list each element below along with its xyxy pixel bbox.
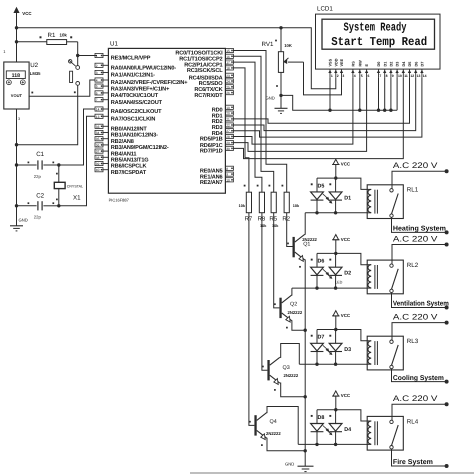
svg-text:D5: D5 [408,62,412,67]
svg-text:D7: D7 [318,335,325,341]
svg-text:3: 3 [96,71,98,75]
svg-text:2: 2 [96,64,98,68]
node: VCC junction (block 3) [334,328,337,331]
svg-text:36: 36 [96,143,100,147]
resistor R5 (base resistor) [269,185,278,223]
wire: LCD D5 to U1 RD2 [233,77,409,123]
node: VCC junction (block 2) [334,252,337,255]
svg-text:Q4: Q4 [270,419,277,425]
LCD pin 14 D7 [420,62,426,78]
node: button-gnd junction [15,143,18,146]
wire: load output to terminal (block 2) [392,293,449,308]
microcontroller U1 PIC16F887 [108,41,225,203]
wire: LCD VSS to ground rail [329,77,331,110]
wire: U2 pin3 down (left ground line) [16,109,18,226]
wire: button to ground line [17,85,78,144]
svg-text:19: 19 [226,106,230,110]
U1 pin 3 (RA1) [95,70,155,78]
svg-text:14: 14 [423,74,427,78]
svg-text:LCD1: LCD1 [317,6,333,13]
wire: U1 RC0 to R2 [233,51,286,193]
wire: A.C 220 V feed (block 3) [392,312,447,340]
svg-text:118: 118 [12,73,20,79]
wire: VCC rail (block 3) [317,330,367,341]
U1 pin 18 (RC3) [187,66,234,74]
terminal: load (block 1) [445,230,449,234]
node: D1 bottom [334,211,337,214]
node: Q2 emitter junction [304,329,307,332]
wire: Q2 emitter join [292,321,306,331]
svg-text:D3: D3 [396,62,400,67]
U1 pin 37 (RB4) [95,149,136,157]
wire: VCC rail (block 4) [317,410,367,421]
terminal: AC (block 2) [445,243,449,247]
svg-text:D2: D2 [390,62,394,67]
svg-text:D8: D8 [318,415,325,421]
svg-text:R1: R1 [48,32,56,39]
capacitor C2 22p [17,193,59,220]
U1 pin 13 (RA7) [95,114,155,122]
svg-text:VCC: VCC [341,162,351,167]
svg-text:VEE: VEE [340,58,344,66]
LCD pin 2 VDD [334,58,339,78]
bottom image border artifact [190,472,474,474]
svg-text:5: 5 [361,74,363,78]
svg-text:A.C 220 V: A.C 220 V [393,161,438,170]
svg-text:D1: D1 [344,195,351,201]
svg-text:22: 22 [226,124,230,128]
svg-text:9: 9 [392,74,394,78]
svg-text:CRYSTAL: CRYSTAL [67,184,83,188]
transistor Q4 (2N2222 NPN) [249,413,281,446]
svg-text:23: 23 [226,74,230,78]
svg-text:GND: GND [19,218,28,223]
terminal: AC (block 1) [445,169,449,173]
node: crystal bottom node B [57,204,60,207]
diode D7 (flyback) [311,330,325,365]
svg-text:GND: GND [266,96,275,101]
wire: node B to U1 OSC pin 13 [59,116,95,206]
svg-text:VCC: VCC [341,393,351,398]
svg-text:22p: 22p [34,174,42,179]
U1 pin 1 (RE3) [95,53,151,61]
svg-text:D6: D6 [318,259,325,265]
svg-text:RL4: RL4 [407,418,419,425]
svg-text:6: 6 [96,91,98,95]
svg-text:X1: X1 [73,194,81,201]
node: crystal top node A [57,163,60,166]
U1 pin 25 (RC6) [194,85,233,93]
node: MCLR [76,54,79,57]
node: R1 branch junction [15,40,18,43]
svg-text:10: 10 [226,178,230,182]
svg-text:8: 8 [226,167,228,171]
svg-text:10k: 10k [272,224,279,228]
svg-text:34: 34 [96,131,100,135]
svg-text:Q3: Q3 [283,365,290,371]
LCD pin 12 D5 [408,62,414,78]
svg-text:C2: C2 [36,193,44,200]
svg-text:A.C 220 V: A.C 220 V [393,234,438,243]
svg-text:D7: D7 [421,62,425,67]
U1 pin 4 (RA2) [95,78,188,86]
svg-text:10k: 10k [60,32,68,37]
terminal: load (block 3) [445,380,449,384]
wire: coil bottom rail (block 4) [298,443,367,445]
svg-text:RD7/P1D: RD7/P1D [200,148,223,155]
LCD pin 13 D6 [414,62,420,78]
LED D2 (indicator) [323,253,351,288]
svg-text:9: 9 [226,173,228,177]
wire: VCC rail (block 2) [317,253,367,264]
node: C1 left junction [15,163,18,166]
wire: coil bottom rail (block 3) [299,363,367,365]
svg-text:13: 13 [417,74,421,78]
wire: load output to terminal (block 3) [392,369,447,382]
wire: Q1 collector to RL1 rail [304,213,306,235]
U1 pin 10 (RE2) [200,178,233,186]
node: D4 bottom [334,443,337,446]
U1 pin 22 (RD3) [212,123,234,131]
wire: LCD D3 to ground rail end [396,77,398,110]
LED D1 (indicator) [323,178,351,213]
LCD module LCD1 [316,6,441,70]
svg-text:14: 14 [96,108,100,112]
svg-text:D4: D4 [344,427,351,433]
potentiometer RV1 (contrast) [262,28,304,109]
svg-text:2N2222: 2N2222 [302,237,317,242]
svg-text:2N2222: 2N2222 [266,431,281,436]
U1 pin 28 (RD5) [200,134,233,142]
U1 pin 5 (RA3) [95,84,170,92]
U1 pin 26 (RC7) [194,91,233,99]
U1 pin 6 (RA4) [95,91,159,99]
power flag VCC (block 3) [332,311,351,330]
U1 pin 2 (RA0) [95,63,176,71]
node: D5 bottom [315,211,318,214]
relay RL2 [367,260,419,294]
svg-text:1: 1 [331,74,333,78]
svg-text:37: 37 [96,150,100,154]
svg-text:U1: U1 [110,41,118,48]
wire: LCD D6 to U1 RD3 [233,77,415,130]
U1 pin 23 (RC4) [189,73,234,81]
svg-text:Q2: Q2 [290,302,297,308]
wire: LCD D4 to U1 RD7 [233,77,403,158]
svg-text:VCC: VCC [22,11,32,16]
wire: LCD RS to U1 RD5 [233,77,353,144]
node: D2 bottom [334,286,337,289]
svg-text:Heating System: Heating System [393,225,446,233]
U1 pin 24 (RC5) [199,79,234,87]
node: RW on ground rail [359,77,361,110]
svg-text:RB2/AN8: RB2/AN8 [111,138,134,145]
U1 pin 21 (RD2) [212,117,234,125]
svg-text:8: 8 [386,74,388,78]
svg-text:10k: 10k [239,204,246,208]
svg-text:7: 7 [379,74,381,78]
svg-text:System Ready: System Ready [344,21,407,35]
wire: R5 to Q2 base [274,213,280,308]
LCD pin 7 D0 [377,62,382,78]
svg-text:27: 27 [226,129,230,133]
svg-text:RS: RS [352,61,356,67]
U1 pin 39 (RB6) [95,161,147,169]
transistor Q3 (2N2222 NPN) [262,357,299,390]
power flag VCC (top left) [13,7,32,62]
svg-text:RB4/AN11: RB4/AN11 [111,150,137,157]
svg-text:1: 1 [96,54,98,58]
wire: Q4 emitter join [267,438,306,451]
capacitor C1 22p [17,151,59,179]
svg-text:2N2222: 2N2222 [288,310,303,315]
resistor R7 (base resistor) [244,185,253,223]
node: D7 bottom [315,363,318,366]
svg-text:10: 10 [398,74,402,78]
svg-text:D0: D0 [377,62,381,67]
svg-text:VCC: VCC [341,237,351,242]
svg-text:13: 13 [96,115,100,119]
wire: A.C 220 V feed (block 2) [392,234,447,264]
U1 pin 27 (RD4) [212,129,234,137]
svg-text:5: 5 [96,85,98,89]
U1 pin 40 (RB7) [95,168,147,176]
svg-text:25: 25 [226,85,230,89]
svg-text:RA6/OSC2/CLKOUT: RA6/OSC2/CLKOUT [111,108,162,115]
svg-text:VDD: VDD [334,58,338,66]
LCD pin 10 D3 [395,62,401,78]
LCD pin 1 VSS [328,58,333,77]
svg-text:Q1: Q1 [303,241,310,247]
value labels for R7/R8/R5/R2 [239,204,300,228]
wire: Q3 emitter join [280,383,306,397]
node: C2 left junction [15,204,18,207]
U1 pin 34 (RB1) [95,130,158,138]
svg-text:VOUT: VOUT [11,93,23,98]
svg-text:RA4/T0CKI/C1OUT: RA4/T0CKI/C1OUT [111,92,159,99]
U1 pin 16 (RC1) [179,54,233,62]
svg-text:RB7/ICSPDAT: RB7/ICSPDAT [111,169,147,176]
node: D3 bottom [334,363,337,366]
svg-text:3: 3 [18,117,20,121]
node: Q3 emitter junction [304,395,307,398]
svg-text:VCC: VCC [341,313,351,318]
node: RV1 top on VCC rail [279,26,282,29]
U1 pin 35 (RB2) [95,137,134,145]
svg-text:RC3/SCK/SCL: RC3/SCK/SCL [187,67,223,74]
wires: LCD D0-D2 to ground rail [378,77,380,110]
power flag VCC (block 2) [332,235,351,254]
svg-text:RW: RW [358,60,362,67]
diode D6 (flyback) [311,253,325,288]
diode D8 (flyback) [311,410,325,445]
svg-text:RC7/RX/DT: RC7/RX/DT [194,92,223,99]
wire: R2 to Q1 base [287,213,293,247]
LCD pin 3 VEE [340,58,345,77]
relay RL3 [367,336,419,370]
LCD pin 11 D4 [402,61,408,78]
node: D8 bottom [315,443,318,446]
ground (under RV1) [266,96,288,114]
svg-text:22p: 22p [34,215,42,220]
resistor R2 (base resistor) [282,185,291,223]
svg-text:RL1: RL1 [407,187,419,194]
U1 pin 38 (RB5) [95,155,148,163]
svg-text:D3: D3 [344,347,351,353]
svg-text:6: 6 [368,74,370,78]
wire: coil bottom rail (block 1) [305,212,367,214]
wire: Q4 collector to RL4 rail [267,407,299,445]
svg-text:40: 40 [96,168,100,172]
svg-text:RE2/AN7: RE2/AN7 [200,179,223,186]
svg-text:Cooling System: Cooling System [393,374,444,382]
svg-text:38: 38 [96,156,100,160]
wire: LCD ground rail [281,95,397,110]
U1 pin 20 (RD1) [212,111,234,119]
svg-text:Fire System: Fire System [393,458,433,466]
wire: VCC top rail to LCD VDD drop [17,28,336,89]
svg-text:3: 3 [342,74,344,78]
wire: A.C 220 V feed (block 1) [392,161,447,189]
svg-text:12: 12 [410,74,414,78]
svg-text:D1: D1 [383,62,387,67]
svg-text:RB5/AN13/T1G: RB5/AN13/T1G [111,157,149,164]
svg-text:2N2222: 2N2222 [284,373,299,378]
svg-text:RD5/P1B: RD5/P1B [200,136,223,143]
diode D5 (flyback) [311,178,325,213]
crystal X1 [54,165,83,206]
wire: load output to terminal (block 1) [392,217,447,232]
LCD pin 9 D2 [389,62,394,78]
LCD pin 4 RS [351,61,356,78]
LED D4 (indicator) [323,410,351,445]
wire: U1 RC3 to R7 [233,68,249,192]
wire: Q2 collector to RL2 rail [291,288,293,295]
svg-text:18: 18 [226,66,230,70]
svg-text:RB3/AN9/PGM/C12IN2-: RB3/AN9/PGM/C12IN2- [111,144,169,151]
wire: coil bottom rail (block 2) [292,287,367,289]
wire: A.C 220 V feed (block 4) [392,394,447,420]
svg-text:10k: 10k [293,204,300,208]
terminal: AC (block 3) [445,321,449,325]
wire: LCD D7 to U1 RD4 [233,77,422,137]
ground (left, under U2) [10,218,28,231]
svg-text:A.C 220 V: A.C 220 V [393,394,438,403]
LED D3 (indicator) [323,330,351,365]
svg-text:29: 29 [226,141,230,145]
U1 pin 29 (RD6) [200,141,233,149]
svg-text:21: 21 [226,117,230,121]
transistor Q1 (2N2222 NPN) [287,234,317,267]
relay RL4 [367,416,419,450]
svg-text:RA1/AN1/C12IN1-: RA1/AN1/C12IN1- [111,72,155,79]
relay RL1 [367,185,419,219]
wire: U2 VOUT to U1 RA2 (pin 4) [29,80,95,96]
wire: VCC rail (block 1) [317,178,367,189]
svg-text:17: 17 [226,61,230,65]
U1 pin 33 (RB0) [95,124,147,132]
svg-text:D5: D5 [318,183,325,189]
terminal: load (block 4) [445,464,449,468]
svg-text:28: 28 [226,135,230,139]
svg-text:GND: GND [285,462,294,467]
svg-text:RD2: RD2 [212,119,223,125]
wire: U1 RC2 to R8 [233,62,262,192]
svg-text:16: 16 [226,55,230,59]
svg-text:D2: D2 [344,271,351,277]
svg-text:Start Temp Read: Start Temp Read [331,35,427,49]
node: VCC junction (block 4) [334,408,337,411]
svg-text:VSS: VSS [329,58,333,66]
U1 pin 9 (RE1) [200,172,233,180]
svg-text:2: 2 [337,74,339,78]
svg-text:20: 20 [226,112,230,116]
resistor R8 (base resistor) [257,185,266,223]
U1 pin 30 (RD7) [200,146,233,154]
wire: node A to U1 OSC pin 14 [59,109,95,165]
wire: LCD E to U1 RD6 [233,77,366,151]
LCD pin 8 D1 [383,62,388,78]
svg-text:10k: 10k [260,224,267,228]
svg-text:4: 4 [354,74,356,78]
svg-text:35: 35 [96,137,100,141]
svg-text:RV1: RV1 [262,41,274,48]
U1 pin 7 (RA5) [95,98,163,106]
ground (bottom, emitters) [285,462,314,472]
wire: U1 RC1 to R5 [233,56,273,192]
power flag VCC (block 1) [332,159,351,178]
node: D6 bottom [315,286,318,289]
svg-text:Ventilation System: Ventilation System [393,300,449,308]
node: VSS on ground rail [328,109,331,112]
terminal: AC (block 4) [445,402,449,406]
temperature sensor U2 (LM35) [3,49,41,121]
wire: MCLR node to U1 pin 1 [78,55,97,57]
power flag VCC (block 4) [332,391,351,410]
wire: R7 to Q4 base [249,213,255,426]
svg-text:A.C 220 V: A.C 220 V [393,312,438,321]
wire: R8 to Q3 base [262,213,268,371]
svg-text:LM35: LM35 [30,71,41,76]
svg-text:26: 26 [226,91,230,95]
svg-text:7: 7 [96,98,98,102]
svg-text:RB0/AN12/INT: RB0/AN12/INT [111,126,148,133]
svg-text:RA3/AN3/VREF+/C1IN+: RA3/AN3/VREF+/C1IN+ [111,85,170,92]
svg-text:RA0/AN0/ULPWU/C12IN0-: RA0/AN0/ULPWU/C12IN0- [111,65,177,72]
node: VCC junction (block 1) [334,176,337,179]
node: RV1 bottom / ground branch [279,94,282,97]
wire: RV1 wiper to LCD VEE [304,62,342,95]
svg-text:24: 24 [226,80,230,84]
svg-text:10K: 10K [284,43,292,48]
svg-text:30: 30 [226,147,230,151]
svg-text:11: 11 [404,74,408,78]
node: VCC rail junction (top-left) [15,26,18,29]
terminal: load (block 2) [445,306,449,310]
svg-text:RB6/ICSPCLK: RB6/ICSPCLK [111,163,147,170]
svg-text:33: 33 [96,125,100,129]
resistor R1 (10k pull-up) [17,32,78,44]
wire: load output to terminal (block 4) [392,449,447,466]
U1 pin 19 (RD0) [212,105,234,113]
svg-text:RL3: RL3 [407,338,419,345]
U1 pin 8 (RE0) [200,166,233,174]
svg-text:U2: U2 [30,62,38,69]
LCD pin 6 E [365,64,370,78]
wire: R1 to MCLR node [77,42,79,56]
U1 pin 14 (RA6) [95,107,162,115]
svg-text:LED: LED [335,280,343,284]
